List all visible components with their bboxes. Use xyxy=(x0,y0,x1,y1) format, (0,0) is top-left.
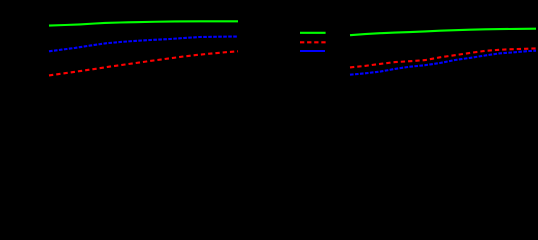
right plot blue dash-dot curve xyxy=(350,51,536,75)
left plot blue dash-dot curve xyxy=(49,37,238,52)
left plot green solid curve xyxy=(49,21,238,25)
left plot red dashed curve xyxy=(49,51,238,75)
right plot green solid curve xyxy=(350,29,536,36)
right plot red dashed curve xyxy=(350,48,536,67)
legend red dashed sample xyxy=(300,41,326,43)
legend green solid sample xyxy=(300,32,326,34)
legend blue solid sample xyxy=(300,50,325,52)
